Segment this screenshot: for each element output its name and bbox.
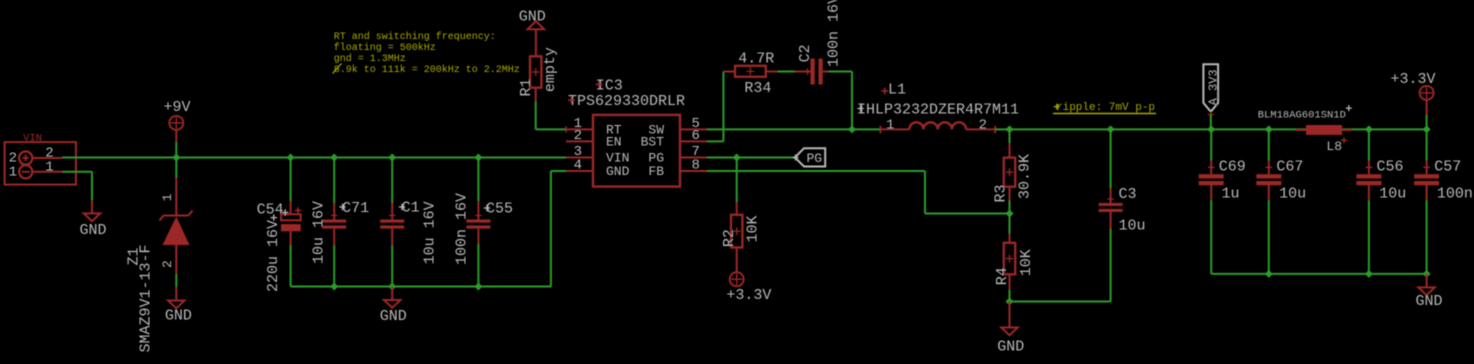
capacitor C2 left pin: [795, 71, 811, 73]
junction right GND bus at C67: [1265, 270, 1273, 278]
connector pin 2 plus circle: [19, 151, 32, 164]
svg-text:IC3: IC3: [596, 77, 623, 94]
wire PG to R2: [736, 158, 738, 203]
svg-text:1: 1: [886, 118, 894, 134]
junction bus at C71: [330, 154, 338, 162]
capacitor C67 plates: [1256, 174, 1281, 178]
capacitor C54 polarity plus: [295, 207, 301, 213]
wire output to C3: [1110, 129, 1112, 188]
wire C3 to GND bus: [1110, 229, 1112, 302]
junction output at C3: [1107, 125, 1115, 133]
capacitor C67 bottom pin: [1268, 184, 1270, 200]
svg-text:10u: 10u: [1279, 186, 1306, 203]
capacitor C54 top pin: [290, 201, 292, 214]
IC3 pin 6 stub: [680, 140, 707, 142]
capacitor C67 top pin: [1268, 161, 1270, 174]
net flag PG tag: [795, 148, 825, 166]
svg-text:SMAZ9V1-13-F: SMAZ9V1-13-F: [137, 244, 154, 352]
svg-text:C56: C56: [1377, 158, 1404, 175]
capacitor C54 bottom pin: [290, 231, 292, 245]
svg-text:1u: 1u: [1222, 186, 1240, 203]
svg-text:TPS629330DRLR: TPS629330DRLR: [568, 93, 685, 110]
svg-text:IHLP3232DZER4R7M11: IHLP3232DZER4R7M11: [857, 102, 1019, 119]
ferrite bead L8 right pin: [1342, 129, 1353, 131]
ferrite bead L8 body: [1306, 125, 1342, 135]
wire C2 to SW net: [828, 71, 852, 73]
wire C69 to GND bus: [1210, 200, 1212, 274]
wire C1 top: [391, 158, 393, 204]
svg-text:8.9k to 111k = 200kHz to 2.2MH: 8.9k to 111k = 200kHz to 2.2MHz: [334, 64, 520, 76]
svg-text:220u 16V: 220u 16V: [265, 220, 282, 292]
resistor R4 bottom pin: [1009, 274, 1011, 290]
wire R3 to R4: [1009, 201, 1011, 234]
capacitor C57 bottom pin: [1426, 184, 1428, 200]
resistor R2 body: [731, 215, 742, 248]
net flag A_3V3 origin cross: [1208, 112, 1214, 118]
junction PG at R2: [733, 154, 741, 162]
inductor L1 pin 1 tick: [879, 126, 881, 133]
junction bottom bus at C55: [474, 283, 482, 291]
ferrite bead L8 left pin: [1296, 129, 1307, 131]
capacitor C1 bottom pin: [391, 229, 393, 246]
svg-text:C71: C71: [342, 200, 369, 217]
ground GND under VIN: [91, 200, 93, 213]
capacitor C71 bottom pin: [333, 229, 335, 246]
svg-text:1: 1: [45, 159, 53, 175]
capacitor C69 bottom pin: [1210, 184, 1212, 200]
svg-text:C69: C69: [1219, 158, 1246, 175]
capacitor C69 top pin: [1210, 161, 1212, 174]
svg-text:2: 2: [574, 128, 582, 144]
junction SW at C2 branch: [848, 125, 856, 133]
wire output to C67: [1268, 129, 1270, 160]
svg-text:PG: PG: [807, 151, 823, 166]
junction right GND bus at C56: [1365, 270, 1373, 278]
capacitor C57 plates: [1414, 174, 1439, 178]
svg-text:GND: GND: [519, 8, 546, 25]
wire bus to zener: [175, 158, 177, 179]
svg-text:R1: R1: [518, 78, 535, 96]
wire IC GND pin to bottom bus: [551, 170, 566, 172]
resistor R3 bottom pin: [1009, 187, 1011, 201]
IC3 pin 7 stub: [680, 157, 707, 159]
IC3 pin 5 stub: [680, 128, 707, 130]
svg-text:L1: L1: [888, 81, 906, 98]
capacitor C55 plates: [466, 220, 490, 223]
svg-text:R3: R3: [993, 184, 1010, 202]
capacitor C2 right pin: [823, 71, 829, 73]
svg-text:C3: C3: [1119, 186, 1137, 203]
junction bus at C54: [287, 154, 295, 162]
junction output at R3: [1006, 125, 1014, 133]
connector pin 1 minus circle: [19, 165, 32, 178]
junction output at C57: [1423, 125, 1431, 133]
svg-text:ripple: 7mV p-p: ripple: 7mV p-p: [1056, 102, 1155, 114]
inductor L1 pin 2 line: [966, 128, 995, 130]
junction R4 GND bus: [1006, 298, 1014, 306]
svg-text:10u: 10u: [1379, 186, 1406, 203]
junction right GND bus at C57: [1423, 270, 1431, 278]
svg-text:1: 1: [9, 164, 17, 180]
svg-text:100n 16V: 100n 16V: [825, 0, 842, 67]
capacitor C69 plates: [1199, 174, 1224, 178]
svg-text:1: 1: [160, 193, 175, 201]
capacitor C55 bottom pin: [477, 229, 479, 244]
wire C55 top: [477, 158, 479, 202]
wire PG net: [707, 157, 795, 159]
wire C71 bottom: [333, 246, 335, 287]
wire output to C57: [1426, 129, 1428, 160]
svg-text:GND: GND: [380, 308, 407, 325]
junction output at C69: [1207, 125, 1215, 133]
junction bus at C55: [474, 154, 482, 162]
resistor R3 top pin: [1009, 143, 1011, 157]
wire C54 top: [290, 158, 292, 202]
ground GND under R4: [1009, 302, 1011, 328]
note strikethrough slash: [333, 64, 342, 74]
svg-text:GND: GND: [79, 222, 106, 239]
resistor R4 body: [1004, 243, 1015, 274]
svg-text:GND: GND: [606, 164, 630, 179]
IC3 pin 4 stub: [566, 170, 593, 172]
svg-text:+3.3V: +3.3V: [1391, 71, 1436, 88]
IC3 pin 2 stub: [566, 140, 593, 142]
net flag A_3V3 tag: [1203, 64, 1218, 112]
svg-text:RT and switching frequency:: RT and switching frequency:: [334, 31, 496, 43]
ground GND under C57: [1426, 274, 1428, 288]
supply +9V symbol: [169, 116, 183, 130]
wire output to R3: [1009, 129, 1011, 143]
resistor R34 left pin: [723, 71, 735, 73]
svg-text:GND: GND: [1415, 293, 1442, 310]
svg-text:+3.3V: +3.3V: [726, 287, 771, 304]
svg-text:2: 2: [160, 260, 175, 268]
capacitor C56 plates: [1356, 174, 1381, 178]
junction bus at C1: [388, 154, 396, 162]
svg-text:GND: GND: [165, 308, 192, 325]
capacitor C55 top pin: [477, 201, 479, 220]
ground GND under C1: [391, 287, 393, 301]
svg-text:10u 16V: 10u 16V: [311, 201, 328, 264]
IC pin 1 connection tick: [565, 126, 567, 132]
wire R4 to GND bus: [1009, 290, 1011, 302]
svg-text:C67: C67: [1276, 158, 1303, 175]
resistor R4 top pin: [1009, 234, 1011, 243]
wire VIN- to GND: [62, 171, 92, 173]
wire output to C56: [1368, 129, 1370, 160]
inductor L1 winding: [909, 122, 966, 129]
resistor R34 right pin: [765, 71, 777, 73]
wire C56 to GND bus: [1368, 200, 1370, 274]
ground GND under zener: [175, 287, 177, 300]
capacitor C71 plates: [322, 220, 346, 223]
junction bottom bus at C1: [388, 283, 396, 291]
svg-text:empty: empty: [542, 47, 559, 92]
wire zener to GND: [175, 274, 177, 287]
svg-text:100n 16V: 100n 16V: [453, 193, 470, 265]
wire +3.3V to bus: [1426, 115, 1428, 129]
capacitor C54 bottom plate: [281, 224, 301, 231]
svg-text:C2: C2: [797, 44, 814, 62]
inductor L1 pin 2 tick: [994, 126, 996, 133]
junction bottom bus at C71: [330, 283, 338, 291]
junction FB divider: [1006, 210, 1014, 218]
svg-text:10u: 10u: [1119, 218, 1146, 235]
svg-text:GND: GND: [997, 339, 1024, 356]
capacitor C71 top pin: [333, 203, 335, 220]
zener Z1 pin 2 line: [175, 245, 177, 274]
svg-text:8: 8: [692, 157, 700, 173]
svg-text:C57: C57: [1434, 158, 1461, 175]
svg-text:R34: R34: [744, 80, 771, 97]
wire C55 bottom: [477, 244, 479, 287]
capacitor C1 plates: [380, 220, 404, 223]
wire +9V to bus: [175, 142, 177, 158]
junction output at C67: [1265, 125, 1273, 133]
wire R1 to IC pin 1: [535, 101, 537, 129]
wire C54 bottom: [290, 245, 292, 287]
wire GND bus R4 to C3: [1010, 301, 1111, 303]
zener Z1 body triangle: [163, 217, 190, 246]
wire right GND bus: [1211, 273, 1426, 275]
svg-text:100n: 100n: [1437, 186, 1473, 203]
svg-text:VIN: VIN: [23, 133, 42, 145]
connector J VIN box: [5, 142, 76, 185]
svg-text:floating = 500kHz: floating = 500kHz: [334, 42, 436, 54]
op-amp U IC3 box: [593, 115, 680, 187]
resistor R1 body: [530, 56, 541, 87]
wire main VIN bus: [62, 157, 566, 159]
svg-text:BST: BST: [641, 135, 665, 150]
svg-text:10u 16V: 10u 16V: [421, 201, 438, 264]
supply +3.3V at R2 pin line: [736, 248, 738, 273]
junction bus at zener: [172, 154, 180, 162]
capacitor C56 bottom pin: [1368, 184, 1370, 200]
note ripple underline: [1053, 113, 1156, 115]
svg-text:R2: R2: [721, 229, 738, 247]
resistor R1 bottom pin: [535, 88, 537, 101]
svg-text:6: 6: [692, 128, 700, 144]
svg-text:EN: EN: [606, 135, 622, 150]
zener Z1 pin 1 line: [175, 178, 177, 216]
supply +3.3V at R2 symbol: [730, 272, 744, 286]
resistor R3 body: [1004, 158, 1015, 187]
wire output to C69: [1210, 129, 1212, 160]
svg-text:R4: R4: [994, 267, 1011, 285]
wire bottom GND bus: [291, 286, 552, 288]
IC3 pin 3 stub: [566, 157, 593, 159]
capacitor C57 top pin: [1426, 161, 1428, 174]
capacitor C2 plates: [811, 59, 815, 85]
inductor L1 pin 1 line: [880, 128, 909, 130]
wire R34 to C2: [778, 71, 796, 73]
svg-text:10K: 10K: [1018, 249, 1035, 276]
supply +3.3V output symbol: [1420, 86, 1434, 100]
capacitor C3 bottom pin: [1110, 212, 1112, 229]
wire C67 to GND bus: [1268, 200, 1270, 274]
svg-text:C1: C1: [402, 200, 420, 217]
svg-text:2: 2: [979, 118, 987, 134]
svg-text:10K: 10K: [745, 215, 762, 242]
resistor R34 body: [735, 66, 766, 77]
capacitor C3 plates: [1099, 203, 1123, 206]
ground GND above R1: [535, 29, 537, 56]
svg-text:4.7R: 4.7R: [738, 51, 774, 68]
svg-text:30.9K: 30.9K: [1016, 154, 1033, 199]
junction output at C56: [1365, 125, 1373, 133]
svg-text:gnd = 1.3MHz: gnd = 1.3MHz: [334, 53, 406, 65]
svg-text:C55: C55: [486, 201, 513, 218]
wire C57 to GND bus: [1426, 200, 1428, 274]
svg-text:C54: C54: [257, 201, 284, 218]
capacitor C1 top pin: [391, 203, 393, 220]
wire L1 to output bus: [995, 128, 1426, 130]
svg-text:4: 4: [574, 157, 582, 173]
IC3 pin 1 stub: [566, 128, 593, 130]
svg-text:A_3V3: A_3V3: [1207, 69, 1221, 105]
svg-text:L8: L8: [1326, 139, 1342, 154]
svg-text:FB: FB: [648, 164, 664, 179]
wire BST to R34: [707, 140, 723, 142]
wire FB net: [707, 170, 925, 172]
zener Z1 cathode bar: [160, 211, 193, 221]
svg-text:+9V: +9V: [163, 99, 190, 116]
wire SW to L1: [707, 128, 880, 130]
IC3 pin 8 stub: [680, 170, 707, 172]
capacitor C56 top pin: [1368, 161, 1370, 174]
wire C71 top: [333, 158, 335, 204]
connector pin 1 stub: [32, 171, 62, 173]
capacitor C54 plus plate: [281, 214, 301, 220]
connector pin 2 stub: [32, 157, 62, 159]
svg-text:BLM18AG601SN1D: BLM18AG601SN1D: [1258, 109, 1346, 121]
wire A_3V3 to bus: [1210, 115, 1212, 130]
wire C1 bottom: [391, 246, 393, 287]
capacitor C3 top pin: [1110, 188, 1112, 203]
resistor R2 top pin: [736, 202, 738, 215]
